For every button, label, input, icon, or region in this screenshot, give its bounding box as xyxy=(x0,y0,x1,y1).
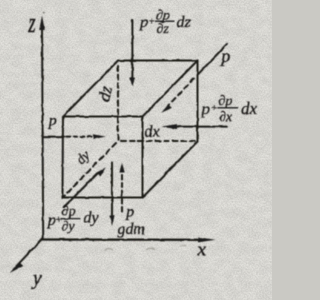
svg-text:∂y: ∂y xyxy=(62,220,76,235)
svg-text:p: p xyxy=(201,101,210,118)
arrow: front pressure (p + dp/dy dy), pointing up-right onto front face xyxy=(64,167,106,207)
arrow: gravity g dm, pointing down xyxy=(109,162,114,226)
svg-text:∂p: ∂p xyxy=(219,94,233,109)
box: edge BTR-BBR xyxy=(197,61,199,142)
svg-text:+: + xyxy=(148,16,155,28)
svg-text:∂p: ∂p xyxy=(62,204,76,219)
label: right p + dp/dx dx xyxy=(201,94,258,125)
svg-text:p: p xyxy=(219,46,230,66)
box: edge BTL-BTR xyxy=(118,60,198,62)
y axis xyxy=(10,239,43,274)
svg-text:dx: dx xyxy=(241,99,258,118)
svg-text:∂x: ∂x xyxy=(219,110,233,125)
box: front face xyxy=(63,117,143,198)
svg-text:x: x xyxy=(197,240,207,261)
svg-text:dx: dx xyxy=(145,124,160,141)
z axis xyxy=(39,16,45,239)
arrow: back-right pressure p along -y (solid outside, dashed inside) xyxy=(161,44,227,113)
svg-text:p: p xyxy=(125,204,134,221)
svg-text:dy: dy xyxy=(84,210,100,227)
x axis xyxy=(42,237,216,242)
svg-text:+: + xyxy=(211,103,218,115)
box: hidden edge BTL-BBL (dashed) xyxy=(117,66,119,141)
box: hidden edge BBL-BBR (dashed) xyxy=(121,140,196,142)
arrow: left pressure p, pointing right (solid outside, dashed inside) xyxy=(43,134,106,139)
svg-text:p: p xyxy=(139,14,148,31)
box: edge FTL-BTL xyxy=(63,61,118,117)
label: top p + dp/dz dz xyxy=(139,9,192,37)
svg-text:z: z xyxy=(27,9,35,39)
box: edge BBR-FBR xyxy=(143,142,198,198)
arrow: top pressure (p + dp/dz dz), pointing down onto top face xyxy=(130,20,135,87)
label: bottom-left p + dp/dy dy xyxy=(47,204,100,234)
svg-text:y: y xyxy=(31,268,42,290)
box: edge FTR-BTR xyxy=(143,61,198,117)
arrow: right pressure (p + dp/dx dx), pointing left onto right face xyxy=(161,124,227,129)
arrow: bottom pressure p, dashed pointing up through bottom face xyxy=(119,163,124,212)
faint scan marks xyxy=(43,12,186,251)
box: hidden edge BBL-FBL (dashed) xyxy=(63,143,116,197)
svg-text:dz: dz xyxy=(177,14,192,31)
svg-text:gdm: gdm xyxy=(118,221,146,238)
svg-text:∂z: ∂z xyxy=(157,22,170,37)
svg-text:p: p xyxy=(48,113,57,130)
